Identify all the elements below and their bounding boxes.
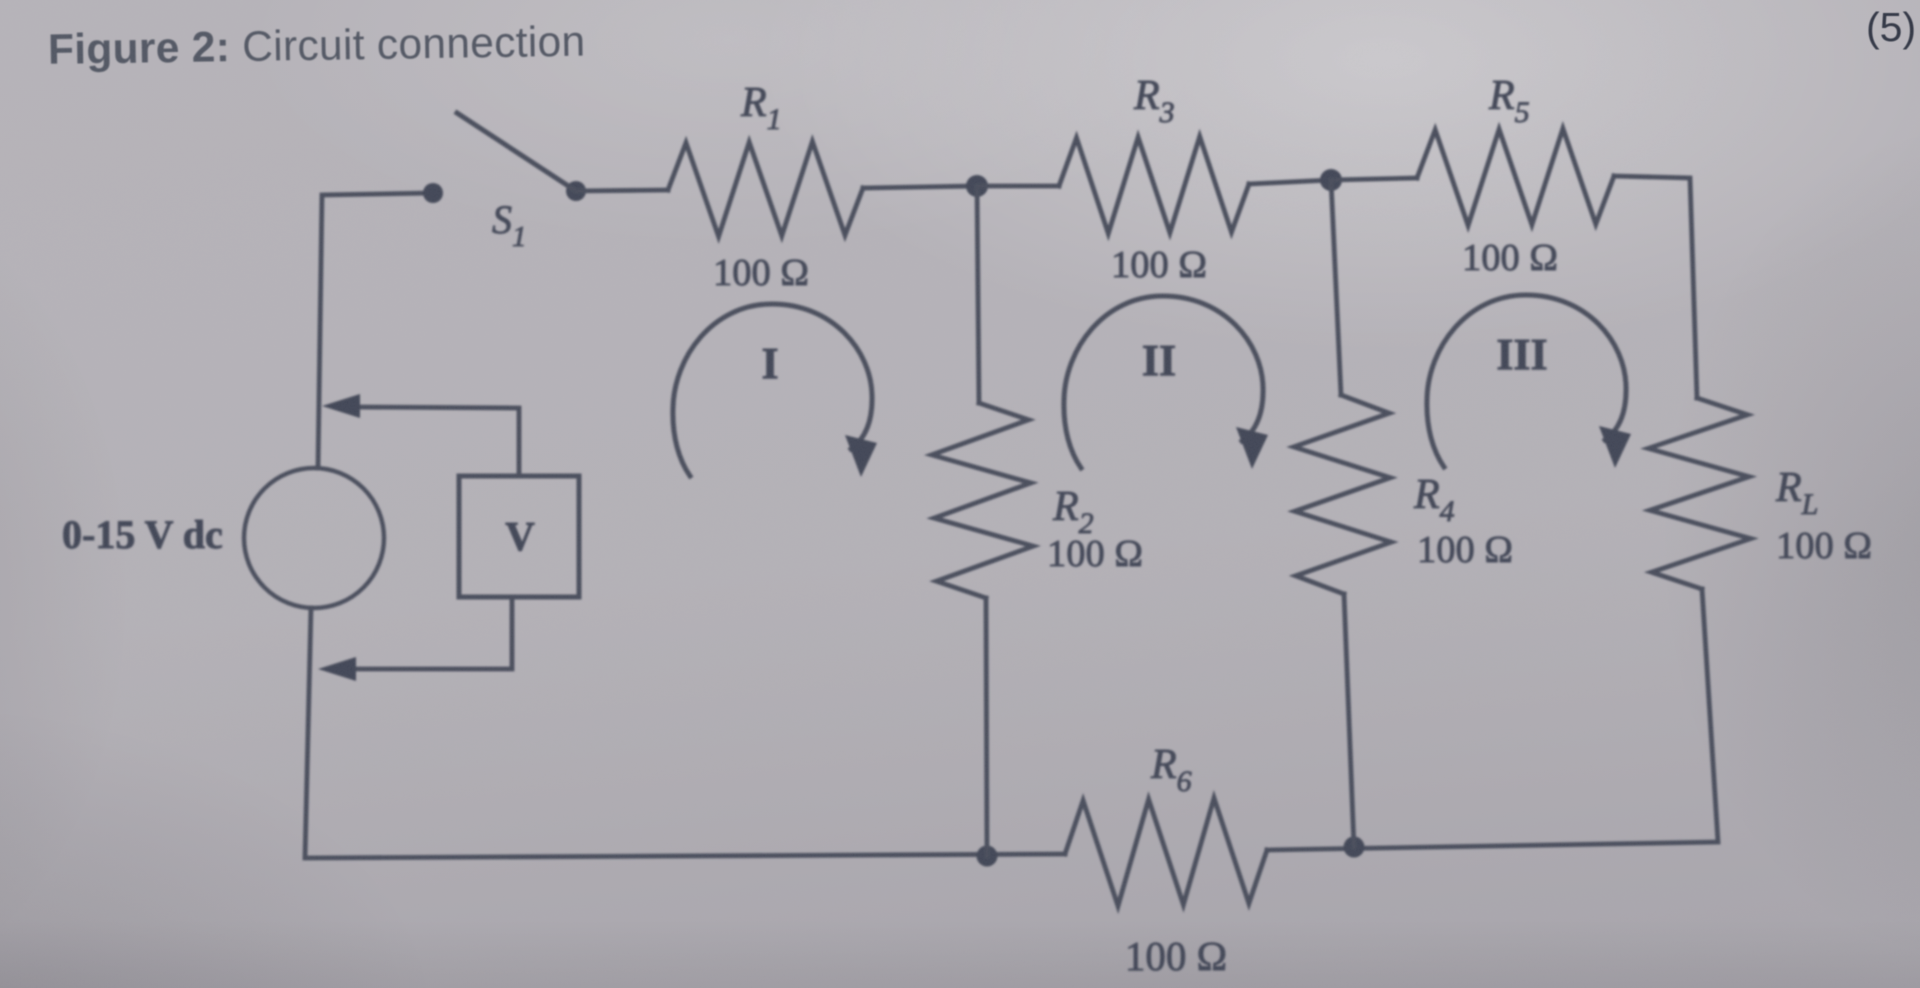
wire: R2 down to bottom node (986, 598, 987, 856)
voltmeter box U-V (459, 476, 579, 597)
resistor R4 (1294, 395, 1391, 594)
node A dot (966, 175, 988, 197)
wire: bottom right segment (R6 right to RL bottom corner) (1267, 589, 1718, 850)
figure caption (48, 16, 749, 75)
photo grain overlay (0, 0, 1, 1)
resistor RL (1648, 398, 1750, 589)
wire: voltmeter top lead with arrow (352, 407, 519, 476)
node B dot (1320, 169, 1342, 191)
switch S1 throw dot (566, 181, 586, 201)
wire: left vertical bottom segment below source (305, 608, 1065, 858)
switch S1 blade (457, 113, 576, 191)
wire: voltmeter bottom lead with arrow (350, 597, 512, 669)
arrowhead voltmeter top (322, 394, 360, 418)
switch S1 pole dot (423, 183, 443, 203)
resistor R2 (932, 403, 1033, 598)
mesh loop I arrowhead (845, 435, 877, 477)
mesh loop III arrow arc (1427, 295, 1626, 467)
mesh loop II arrowhead (1236, 427, 1268, 469)
resistor R3 (1059, 137, 1249, 234)
wire: node A down to R2 (977, 186, 979, 403)
resistor R5 (1417, 129, 1614, 226)
wire: R3 to node B (1249, 180, 1331, 184)
wire: node A to R3 (977, 184, 1059, 189)
resistor R1 (668, 142, 863, 237)
mesh loop III arrowhead (1599, 426, 1631, 468)
wire: R5 to top-right corner down to RL (1614, 176, 1697, 398)
wire: node B down to R4 (1331, 180, 1341, 395)
resistor R6 (1065, 798, 1267, 906)
marks label (5) (1866, 4, 1916, 51)
wire: left vertical top segment (battery top to top wire corner) (318, 193, 433, 468)
wire: switch to R1 (576, 190, 668, 191)
node dot bottom-left junction (977, 846, 998, 867)
wire: R1 to node A (863, 186, 977, 188)
wire: R4 down to bottom node (1344, 594, 1354, 847)
wire: node B to R5 (1331, 178, 1417, 180)
mesh loop I arrow arc (673, 304, 872, 476)
arrowhead voltmeter bottom (318, 657, 356, 681)
node dot bottom-right junction (1344, 837, 1365, 858)
voltage source circle (244, 468, 384, 608)
mesh loop II arrow arc (1064, 296, 1263, 468)
